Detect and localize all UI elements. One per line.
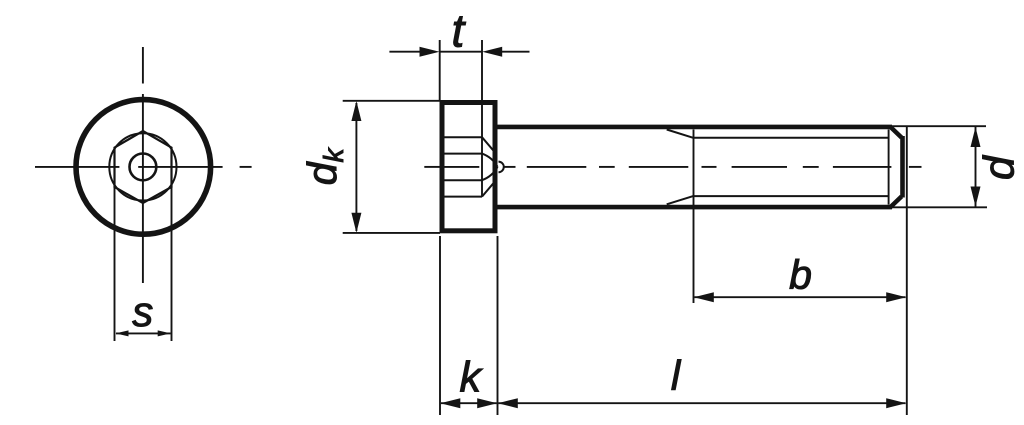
l arrow left bbox=[498, 398, 518, 408]
dk arrow top bbox=[351, 101, 361, 121]
d arrow top bbox=[971, 127, 981, 147]
svg-text:l: l bbox=[671, 352, 682, 399]
d extension line top bbox=[890, 125, 986, 127]
chamfer slant bottom bbox=[891, 197, 902, 208]
socket cone top arc bbox=[482, 154, 498, 167]
svg-text:t: t bbox=[452, 5, 467, 57]
thread minor line top bbox=[694, 137, 889, 139]
socket chamfer slant bottom bbox=[482, 180, 496, 196]
k arrow left bbox=[440, 398, 460, 408]
chamfer slant top bbox=[891, 127, 902, 138]
t arrow left bbox=[420, 47, 440, 57]
svg-text:d: d bbox=[976, 154, 1024, 180]
k dimension line bbox=[441, 402, 497, 404]
k extension line right / l extension left bbox=[497, 236, 499, 415]
screw head rectangle bbox=[442, 103, 495, 231]
front view: horizontal centerline bbox=[35, 166, 252, 168]
b dimension line bbox=[695, 296, 906, 298]
shank bottom edge bbox=[498, 205, 893, 210]
front view: vertical centerline bbox=[142, 47, 144, 283]
dk arrow bottom bbox=[351, 213, 361, 233]
d extension line bottom bbox=[890, 206, 987, 208]
shank top edge bbox=[498, 125, 893, 130]
t arrow right bbox=[482, 47, 502, 57]
d dimension line bbox=[975, 127, 977, 207]
thread runout slant bottom bbox=[667, 196, 694, 204]
thread start line / b extension left bbox=[693, 130, 695, 304]
hex socket side lines bbox=[442, 137, 482, 196]
end face bbox=[900, 136, 905, 198]
s arrow left bbox=[116, 330, 129, 336]
head outer circle bbox=[76, 100, 211, 235]
socket cone bottom arc bbox=[482, 167, 498, 180]
d label bbox=[976, 154, 1024, 180]
dk extension line bottom bbox=[343, 232, 440, 234]
socket chamfer slant top bbox=[482, 137, 496, 153]
thread runout slant top bbox=[667, 130, 694, 138]
svg-text:s: s bbox=[132, 288, 153, 335]
s dimension line bbox=[116, 332, 171, 334]
b arrow left bbox=[694, 292, 714, 302]
l dimension line bbox=[499, 402, 906, 404]
l arrow right bbox=[886, 398, 906, 408]
chamfer line bbox=[888, 130, 890, 205]
dk label bbox=[299, 146, 349, 185]
drill tip arc bbox=[499, 162, 504, 173]
pilot hole circle bbox=[130, 154, 157, 181]
t extension line right / socket bottom bbox=[481, 40, 483, 197]
t dimension line bbox=[389, 51, 529, 53]
svg-text:b: b bbox=[789, 252, 812, 298]
b arrow right bbox=[886, 292, 906, 302]
s arrow right bbox=[158, 330, 171, 336]
hex socket hexagon bbox=[115, 131, 172, 203]
k arrow right bbox=[477, 398, 497, 408]
thread minor line bottom bbox=[694, 195, 889, 197]
k extension line left bbox=[439, 236, 441, 415]
dk dimension line bbox=[355, 103, 357, 231]
socket counterbore circle bbox=[109, 133, 176, 200]
side view: axis centerline bbox=[424, 166, 921, 168]
t extension line left bbox=[439, 40, 441, 100]
s extension line right bbox=[171, 187, 173, 341]
l b extension line right bbox=[906, 126, 908, 415]
dk extension line top bbox=[343, 100, 440, 102]
svg-text:k: k bbox=[459, 353, 483, 401]
d arrow bottom bbox=[971, 187, 981, 207]
s extension line left bbox=[114, 187, 116, 341]
